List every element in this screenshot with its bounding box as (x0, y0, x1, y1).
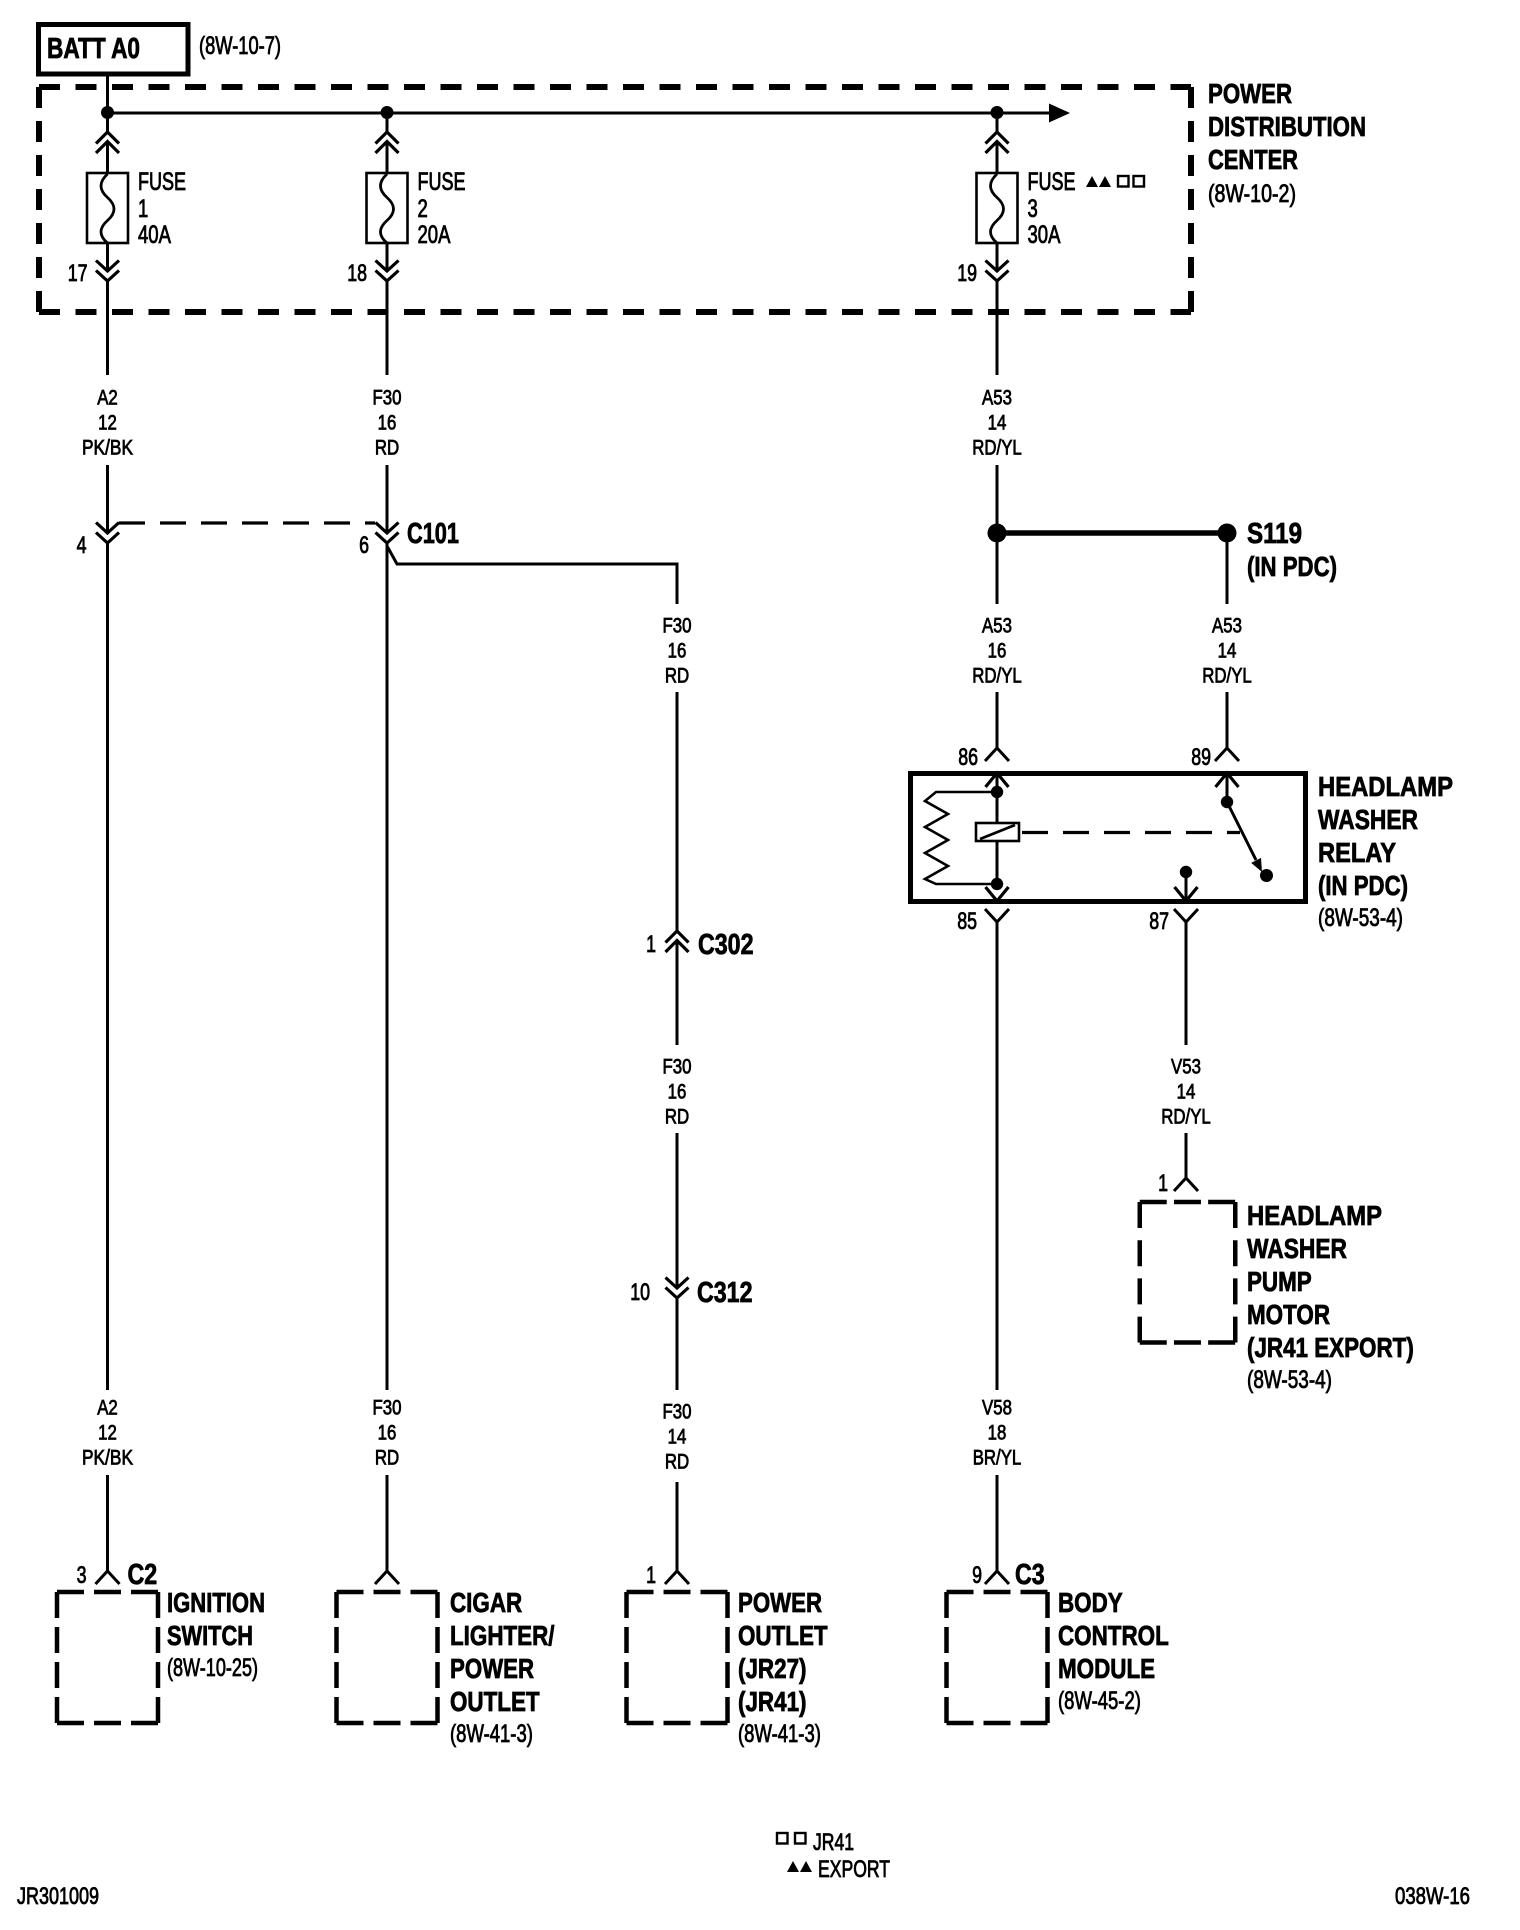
wire col3 to C302 (676, 692, 679, 931)
svg-text:RD: RD (375, 437, 399, 460)
splice S119 right node (1218, 524, 1237, 543)
svg-text:C312: C312 (697, 1277, 753, 1309)
svg-text:4: 4 (77, 532, 87, 559)
svg-text:MODULE: MODULE (1058, 1653, 1155, 1684)
wire fuse 1 feed bus to connector (106, 113, 109, 132)
svg-text:F30: F30 (373, 1397, 402, 1420)
svg-text:OUTLET: OUTLET (738, 1620, 828, 1651)
svg-text:BATT A0: BATT A0 (47, 33, 140, 65)
svg-text:BR/YL: BR/YL (973, 1447, 1022, 1470)
svg-text:MOTOR: MOTOR (1247, 1299, 1330, 1330)
relay resistor (925, 792, 997, 884)
relay pin 87 connector (1149, 887, 1198, 935)
svg-text:89: 89 (1191, 744, 1211, 771)
svg-text:40A: 40A (138, 221, 171, 249)
PDC pin 17 connector (68, 243, 119, 375)
connector C101 pin 6 (359, 518, 459, 559)
relay coil bottom node (991, 878, 1003, 890)
wire label V58 18 BR/YL (973, 1397, 1022, 1470)
svg-text:F30: F30 (373, 387, 402, 410)
svg-text:(8W-53-4): (8W-53-4) (1318, 904, 1403, 932)
power outlet pin 1 connector (646, 1562, 689, 1589)
svg-text:(8W-10-2): (8W-10-2) (1208, 180, 1296, 208)
svg-text:(JR41): (JR41) (738, 1686, 807, 1717)
legend JR41 squares (777, 1829, 854, 1856)
dashed jumper wire C101 (119, 521, 375, 524)
connector C2 pin 3 (77, 1559, 158, 1591)
relay pin 87 wire (1185, 872, 1188, 901)
wire S119 right down (1226, 533, 1229, 604)
svg-text:C302: C302 (698, 929, 754, 961)
svg-text:2: 2 (418, 195, 428, 223)
relay coil top node (991, 786, 1003, 798)
wire label A53 16 RD/YL (972, 615, 1022, 688)
wire BATT A0 to bus (106, 74, 109, 113)
pump pin 1 connector (1158, 1170, 1198, 1197)
wire label A53 14 RD/YL right (1202, 615, 1252, 688)
svg-text:3: 3 (77, 1562, 87, 1589)
connector C3 pin 9 (972, 1559, 1045, 1591)
svg-text:12: 12 (98, 1422, 117, 1445)
relay switch contact node (1260, 869, 1273, 882)
fuse F3 label (1028, 168, 1076, 249)
svg-text:JR41: JR41 (813, 1829, 854, 1856)
svg-text:POWER: POWER (1208, 78, 1292, 109)
svg-text:17: 17 (68, 260, 88, 287)
svg-text:OUTLET: OUTLET (450, 1686, 540, 1717)
wire label F30 16 RD branch (663, 615, 692, 688)
svg-text:RD: RD (665, 1451, 689, 1474)
svg-text:86: 86 (958, 744, 978, 771)
fuse F1 label (138, 168, 186, 249)
svg-text:WASHER: WASHER (1318, 804, 1418, 835)
svg-text:CENTER: CENTER (1208, 144, 1298, 175)
relay name label (1318, 771, 1453, 932)
fuse F1 (87, 173, 128, 243)
relay pin 87 node (1180, 866, 1192, 878)
svg-text:RD/YL: RD/YL (972, 665, 1022, 688)
svg-text:9: 9 (972, 1562, 982, 1589)
cigar lighter connector (375, 1571, 399, 1584)
svg-text:18: 18 (347, 260, 367, 287)
reference label (8W-10-7) (199, 32, 281, 60)
svg-text:3: 3 (1028, 195, 1038, 223)
svg-text:(8W-41-3): (8W-41-3) (738, 1720, 821, 1748)
relay coil wire upper (996, 792, 999, 823)
svg-text:16: 16 (668, 1081, 687, 1104)
relay pin 85 connector (957, 887, 1009, 935)
svg-text:C2: C2 (128, 1559, 158, 1591)
cigar lighter label (450, 1587, 555, 1748)
bus wire with arrow (108, 104, 1071, 123)
cigar lighter box (337, 1592, 438, 1723)
svg-text:18: 18 (988, 1422, 1007, 1445)
svg-text:10: 10 (630, 1279, 650, 1306)
svg-text:(8W-10-7): (8W-10-7) (199, 32, 281, 60)
wire to relay pin 86 (996, 692, 999, 748)
relay coil-switch dashed link (1022, 831, 1240, 834)
svg-text:RD/YL: RD/YL (972, 437, 1022, 460)
svg-text:V53: V53 (1171, 1056, 1201, 1079)
svg-text:14: 14 (1177, 1081, 1196, 1104)
svg-text:PUMP: PUMP (1247, 1266, 1312, 1297)
svg-text:A53: A53 (982, 615, 1012, 638)
wire to body control module (996, 1475, 999, 1571)
battery feed box BATT A0 (39, 25, 189, 75)
wire relay 85 down (996, 922, 999, 1390)
svg-text:(JR27): (JR27) (738, 1653, 807, 1684)
svg-text:C3: C3 (1015, 1559, 1045, 1591)
svg-text:16: 16 (378, 412, 397, 435)
wire S119 left down (996, 533, 999, 604)
svg-text:CIGAR: CIGAR (450, 1587, 522, 1618)
svg-text:(IN PDC): (IN PDC) (1247, 551, 1337, 582)
svg-text:SWITCH: SWITCH (167, 1620, 253, 1651)
wire label F30 16 RD mid (663, 1056, 692, 1129)
svg-text:S119: S119 (1247, 518, 1302, 550)
relay pin 86 connector (958, 744, 1009, 792)
wire label A2 12 PK/BK upper (82, 387, 133, 460)
svg-text:FUSE: FUSE (1028, 168, 1076, 196)
wire to cigar lighter (386, 1475, 389, 1571)
PDC pin 18 connector (347, 243, 398, 375)
wire relay 87 down (1185, 922, 1188, 1045)
fuse F3 export marks (1086, 176, 1144, 187)
svg-text:1: 1 (1158, 1170, 1168, 1197)
svg-text:6: 6 (359, 532, 369, 559)
wire label A53 14 RD/YL upper (972, 387, 1022, 460)
svg-text:FUSE: FUSE (138, 168, 186, 196)
wire col A53 to S119 (996, 465, 999, 533)
svg-text:20A: 20A (418, 221, 451, 249)
svg-text:HEADLAMP: HEADLAMP (1247, 1200, 1382, 1231)
svg-text:EXPORT: EXPORT (818, 1856, 890, 1883)
svg-text:(8W-45-2): (8W-45-2) (1058, 1687, 1141, 1715)
pump motor label (1247, 1200, 1414, 1394)
svg-text:HEADLAMP: HEADLAMP (1318, 771, 1453, 802)
svg-text:16: 16 (668, 640, 687, 663)
sheet number JR301009 (17, 1883, 99, 1910)
relay coil wire lower (996, 841, 999, 884)
svg-text:DISTRIBUTION: DISTRIBUTION (1208, 111, 1366, 142)
svg-text:WASHER: WASHER (1247, 1233, 1347, 1264)
connector chevrons above fuse 2 feed (376, 132, 399, 173)
svg-text:(8W-53-4): (8W-53-4) (1247, 1366, 1332, 1394)
PDC name label (1208, 78, 1366, 208)
svg-text:16: 16 (988, 640, 1007, 663)
ignition switch label (167, 1587, 265, 1682)
svg-text:V58: V58 (982, 1397, 1012, 1420)
wire label F30 14 RD lower (663, 1401, 692, 1474)
sheet number 038W-16 (1395, 1883, 1470, 1910)
fuse F2 label (418, 168, 466, 249)
svg-text:1: 1 (138, 195, 148, 223)
wire col1 to C101 row (106, 465, 109, 533)
svg-text:RD: RD (665, 665, 689, 688)
power distribution center dashed box (39, 87, 1191, 312)
connector C312 pin 10 (630, 1277, 752, 1390)
svg-text:CONTROL: CONTROL (1058, 1620, 1169, 1651)
wire fuse 3 feed bus to connector (996, 113, 999, 132)
svg-text:A2: A2 (97, 1397, 118, 1420)
splice S119 left node (988, 524, 1007, 543)
svg-text:A53: A53 (982, 387, 1012, 410)
svg-text:(8W-10-25): (8W-10-25) (167, 1654, 258, 1682)
svg-text:BODY: BODY (1058, 1587, 1123, 1618)
svg-text:1: 1 (646, 1562, 656, 1589)
wire label F30 16 RD upper (373, 387, 402, 460)
junction node col3 fuse3 (991, 106, 1004, 119)
power outlet label (738, 1587, 828, 1748)
wire col2 C101 to bottom (386, 544, 389, 1391)
body control module box (947, 1592, 1048, 1723)
wire label V53 14 RD/YL (1161, 1056, 1211, 1129)
svg-text:038W-16: 038W-16 (1395, 1883, 1470, 1910)
wire to ignition switch (106, 1475, 109, 1571)
headlamp washer relay box (911, 774, 1306, 902)
relay coil (976, 823, 1019, 841)
connector chevrons above fuse 1 feed (96, 132, 119, 173)
svg-text:30A: 30A (1028, 221, 1061, 249)
branch wire C101 to col3 (387, 546, 677, 604)
wire col1 C101 to bottom (106, 544, 109, 1391)
svg-text:85: 85 (957, 908, 977, 935)
PDC pin 19 connector (957, 243, 1008, 375)
svg-text:RELAY: RELAY (1318, 837, 1396, 868)
fuse F2 (367, 173, 408, 243)
svg-text:PK/BK: PK/BK (82, 437, 133, 460)
wire to pump motor (1185, 1133, 1188, 1178)
wire fuse 2 feed bus to connector (386, 113, 389, 132)
wire col2 to C101 row (386, 465, 389, 533)
svg-text:FUSE: FUSE (418, 168, 466, 196)
junction node col1 (101, 106, 114, 119)
wire to power outlet (676, 1482, 679, 1571)
connector chevrons above fuse 3 feed (986, 132, 1009, 173)
junction node col2 (381, 106, 394, 119)
connector pin 4 (77, 523, 119, 560)
headlamp washer pump motor box (1140, 1202, 1236, 1343)
svg-text:RD: RD (375, 1447, 399, 1470)
relay pin 89 connector (1191, 744, 1239, 802)
svg-text:POWER: POWER (450, 1653, 534, 1684)
wire label F30 16 RD lower (373, 1397, 402, 1470)
svg-text:RD/YL: RD/YL (1161, 1106, 1211, 1129)
relay switch arm (1227, 802, 1262, 872)
svg-text:14: 14 (988, 412, 1007, 435)
svg-text:19: 19 (957, 260, 977, 287)
splice label S119 (1247, 518, 1337, 582)
svg-text:F30: F30 (663, 1056, 692, 1079)
svg-text:(JR41 EXPORT): (JR41 EXPORT) (1247, 1332, 1414, 1363)
svg-text:IGNITION: IGNITION (167, 1587, 265, 1618)
ignition switch box (57, 1592, 158, 1723)
svg-text:JR301009: JR301009 (17, 1883, 99, 1910)
svg-text:14: 14 (668, 1426, 687, 1449)
svg-text:F30: F30 (663, 615, 692, 638)
connector C302 pin 1 (646, 929, 753, 1045)
svg-text:A2: A2 (97, 387, 118, 410)
svg-text:C101: C101 (407, 518, 459, 550)
legend EXPORT triangles (787, 1856, 890, 1883)
svg-text:POWER: POWER (738, 1587, 822, 1618)
splice link wire (997, 530, 1227, 536)
svg-text:87: 87 (1149, 908, 1169, 935)
wire to relay pin 89 (1226, 692, 1229, 748)
fuse F3 (977, 173, 1018, 243)
wire label A2 12 PK/BK lower (82, 1397, 133, 1470)
relay switch pivot node (1221, 796, 1233, 808)
svg-text:LIGHTER/: LIGHTER/ (450, 1620, 555, 1651)
svg-text:(8W-41-3): (8W-41-3) (450, 1720, 533, 1748)
body control module label (1058, 1587, 1169, 1715)
svg-text:PK/BK: PK/BK (82, 1447, 133, 1470)
svg-text:RD: RD (665, 1106, 689, 1129)
svg-text:(IN PDC): (IN PDC) (1318, 870, 1408, 901)
svg-text:F30: F30 (663, 1401, 692, 1424)
svg-text:14: 14 (1218, 640, 1237, 663)
power outlet box (627, 1592, 728, 1723)
svg-text:A53: A53 (1212, 615, 1242, 638)
svg-text:1: 1 (646, 931, 656, 958)
svg-text:12: 12 (98, 412, 117, 435)
svg-text:16: 16 (378, 1422, 397, 1445)
wire col3 C302 to C312 (676, 1133, 679, 1288)
svg-text:RD/YL: RD/YL (1202, 665, 1252, 688)
